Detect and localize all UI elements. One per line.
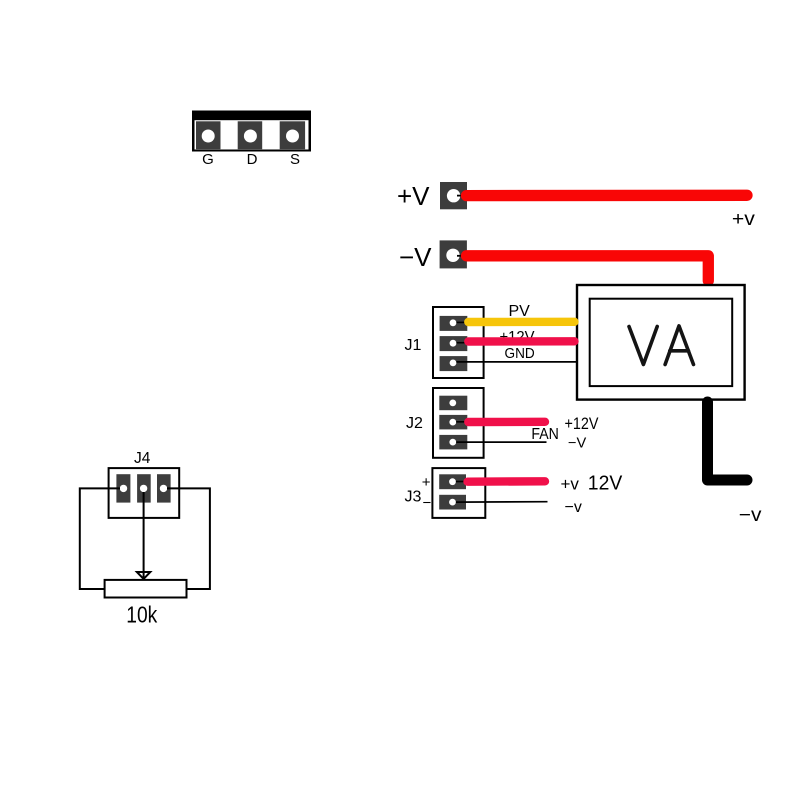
svg-text:+v: +v [561,475,580,494]
wire -V red to meter top [457,255,463,257]
J2 pin 1 pad [439,396,467,411]
terminal -V pad [440,240,467,268]
connector J3 body [432,468,485,518]
svg-text:S: S [290,151,300,168]
pin S pad [280,121,305,149]
svg-text:−v: −v [739,505,762,526]
svg-text:PV: PV [509,303,531,320]
svg-text:12V: 12V [588,472,623,495]
connector J1 body [433,307,484,378]
svg-text:+v: +v [732,209,756,230]
connector GDS header body [192,111,311,152]
wire +v crimson (J3) [468,477,546,486]
wire J4 pin1 to pot left [80,488,120,589]
wire GND [456,361,578,363]
wire -v thin (J3) [456,501,548,503]
J1 pin 3 pad [440,356,468,371]
svg-text:FAN: FAN [531,426,559,443]
svg-text:+: + [422,474,431,491]
J3 pin 2 pad [439,495,466,510]
J1 pin 2 pad [440,336,468,351]
svg-text:J3: J3 [405,489,422,506]
label VA (drawn strokes) [629,326,694,365]
J2 pin 3 pad [439,435,467,450]
potentiometer body [105,580,187,598]
wire J4 pin2 wiper [143,492,145,578]
J2 pin 2 pad [439,415,467,430]
svg-text:G: G [202,151,214,168]
svg-text:D: D [247,151,258,168]
J4 pin 2 pad [137,474,151,502]
svg-text:J4: J4 [134,450,151,467]
svg-text:+V: +V [397,181,430,211]
svg-text:−: − [423,495,432,512]
connector J2 body [433,388,484,458]
wiper arrowhead [137,572,150,579]
svg-text:−V: −V [399,242,432,272]
wire black from meter bottom [708,402,748,480]
meter VA outer box [577,285,745,400]
svg-text:10k: 10k [126,602,157,628]
J1 pin 1 pad [440,316,468,331]
svg-text:GND: GND [505,346,535,362]
wire PV yellow [468,318,574,327]
J3 pin 1 pad [439,474,466,489]
svg-text:−V: −V [568,436,587,452]
connector J4 body [109,468,180,518]
J4 pin 3 pad [157,474,171,502]
wire +12V crimson (J1) [468,337,574,346]
pin D pad [238,121,263,149]
svg-text:−v: −v [565,499,582,516]
svg-text:J2: J2 [406,415,423,432]
terminal +V pad [440,182,467,209]
svg-text:J1: J1 [405,337,422,354]
wire +V red [457,195,463,197]
wire +12V crimson (J2) [468,418,545,427]
J4 pin 1 pad [116,474,130,502]
meter VA inner box [590,299,733,386]
svg-text:+12V: +12V [565,415,599,433]
wire J4 pin3 to pot right [167,488,210,589]
wire FAN -V thin [456,441,546,443]
pin G pad [196,121,221,149]
